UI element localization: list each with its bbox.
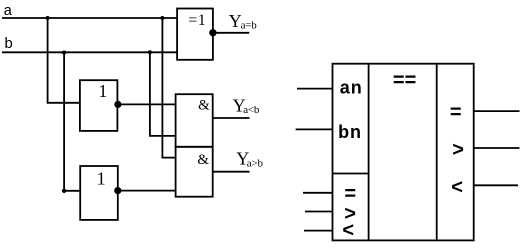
svg-text:<: < — [451, 177, 463, 199]
node junction at NOT2 input corner — [62, 189, 66, 193]
wire b branch to NOT2 — [64, 53, 80, 191]
op comparator block U6 outer box — [333, 64, 474, 241]
svg-text:1: 1 — [97, 168, 106, 188]
wire sub divider — [333, 173, 369, 175]
op NOT gate U3 box — [80, 166, 118, 220]
svg-text:=1: =1 — [188, 12, 206, 29]
wire a branch to AND2 — [162, 18, 175, 158]
svg-text:&: & — [197, 152, 209, 168]
wire cascade input > — [305, 211, 333, 213]
svg-text:a: a — [3, 3, 12, 20]
wire output < — [474, 184, 518, 186]
wire cascade input < — [304, 230, 333, 232]
svg-text:1: 1 — [98, 81, 107, 101]
wire output = — [474, 110, 520, 112]
svg-text:bn: bn — [338, 122, 362, 142]
svg-text:<: < — [342, 219, 354, 241]
node junction on b at x=64.1 — [62, 51, 66, 55]
svg-text:b: b — [4, 36, 13, 53]
wire NOT1 output to AND1 — [121, 103, 176, 105]
op NOT gate U2 box — [80, 80, 118, 131]
wire b branch to AND1 — [150, 52, 176, 136]
wire input b — [2, 51, 177, 53]
node junction on a at x=162.4 — [160, 16, 164, 20]
node junction on b at x=149.9 — [148, 50, 152, 54]
wire input bn — [296, 128, 333, 130]
wire AND1 output Ya<b — [213, 117, 250, 119]
svg-text:=: = — [344, 183, 356, 205]
svg-text:=: = — [450, 101, 462, 123]
op AND gate U5 box — [176, 147, 213, 197]
svg-text:>: > — [452, 139, 464, 161]
node junction on a at x=47.6 — [46, 16, 50, 20]
node NOT2 output dot — [114, 187, 121, 194]
wire cascade input = — [303, 192, 333, 194]
wire XNOR output Ya=b — [216, 32, 249, 34]
svg-text:==: == — [393, 70, 416, 92]
wire input a — [2, 17, 177, 19]
wire divider 1 — [368, 64, 370, 241]
wire a branch to NOT1 — [48, 18, 80, 103]
op XNOR gate U1 box =1 — [177, 9, 213, 60]
node XNOR output dot — [209, 29, 216, 36]
svg-text:&: & — [198, 97, 210, 113]
svg-text:an: an — [340, 78, 363, 98]
wire AND2 output Ya>b — [213, 171, 250, 173]
node NOT1 output dot — [114, 101, 121, 108]
wire input an — [297, 88, 333, 90]
wire output > — [474, 147, 520, 149]
op AND gate U4 box — [176, 94, 213, 147]
wire divider 2 — [436, 64, 438, 241]
wire NOT2 output to AND2 — [121, 190, 176, 192]
